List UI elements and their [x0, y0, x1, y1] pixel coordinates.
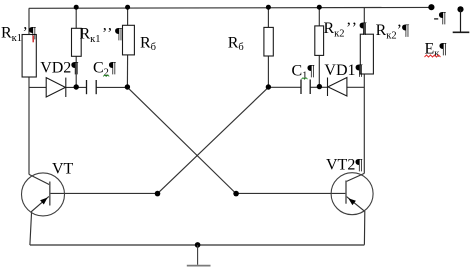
resistor Rb2: [264, 27, 273, 56]
resistor Rk2'': [315, 26, 324, 56]
node dot diode row right a: [266, 84, 271, 89]
wire node to base VT2: [236, 192, 346, 194]
svg-text:VD1¶: VD1¶: [324, 62, 363, 79]
transistor VT: [22, 173, 65, 216]
node dot top 3: [266, 5, 271, 10]
wire right column top: [363, 8, 365, 35]
resistor Rk2': [360, 34, 373, 74]
diode VD1: [328, 78, 347, 97]
wire VD1 to right column: [347, 86, 364, 88]
node dot top 1: [74, 5, 79, 10]
wire Rb1 drop: [127, 8, 129, 25]
node dot bottom rail: [195, 242, 201, 248]
svg-text:Rк1’’¶: Rк1’’¶: [80, 25, 124, 45]
node dot diode row left a: [74, 84, 79, 89]
ground: [187, 245, 211, 266]
wire emitter VT2 down: [347, 197, 365, 245]
wire bottom rail: [30, 244, 365, 246]
wire node to VD1: [319, 86, 327, 88]
node dot top 2: [125, 5, 130, 10]
wire VD2 to node: [66, 86, 87, 88]
node dot diode row right b: [317, 84, 322, 89]
diode VD2: [46, 78, 66, 97]
wire collector VT2: [346, 173, 364, 181]
capacitor C1: [301, 80, 310, 95]
svg-text:VD2¶: VD2¶: [40, 60, 79, 77]
spellcheck tick Rk1': [32, 36, 34, 43]
wire Rb1 to node: [126, 55, 128, 88]
wire cross coupling right to left: [158, 87, 269, 193]
wire Rk1pp drop: [75, 8, 77, 28]
wire Rk2pp drop: [318, 8, 320, 26]
wire left column mid: [28, 77, 30, 174]
wire cross coupling left to right: [127, 87, 236, 193]
wire base VT: [50, 192, 158, 194]
wire left column top: [28, 8, 30, 34]
node dot rail end minus terminal: [428, 4, 434, 10]
resistor Rb1: [123, 25, 135, 55]
wire diode row left: [29, 86, 46, 88]
node dot base VT: [155, 191, 161, 197]
resistor Rk1'': [72, 28, 82, 56]
transistor VT2: [331, 173, 373, 215]
svg-text:Rк2’’¶: Rк2’’¶: [324, 20, 368, 40]
capacitor C2: [87, 80, 97, 94]
node dot diode row left b: [125, 84, 130, 89]
wire top rail: [29, 6, 432, 9]
wire collector VT: [29, 174, 49, 184]
grammar squiggle C2: [103, 75, 109, 77]
battery terminal Ek: [453, 6, 470, 32]
wire Rk2pp to node: [318, 55, 320, 87]
svg-text:-¶: -¶: [434, 9, 447, 26]
node dot base VT2: [233, 191, 239, 197]
wire right column mid: [363, 74, 365, 173]
wire Rk1pp to node: [75, 56, 77, 87]
wire Rb2 drop: [267, 8, 269, 27]
grammar squiggle C1: [302, 78, 308, 80]
wire node to C1: [268, 86, 301, 88]
svg-text:VT2¶: VT2¶: [326, 157, 363, 174]
node dot top 4: [317, 5, 322, 10]
svg-text:VT: VT: [52, 160, 74, 177]
resistor Rk1': [22, 35, 36, 78]
wire C2 to node: [96, 86, 127, 88]
wire emitter VT down: [30, 196, 49, 245]
wire C1 to node: [310, 86, 319, 88]
spellcheck squiggle Ek: [425, 55, 441, 57]
wire Rb2 to node: [267, 56, 269, 87]
